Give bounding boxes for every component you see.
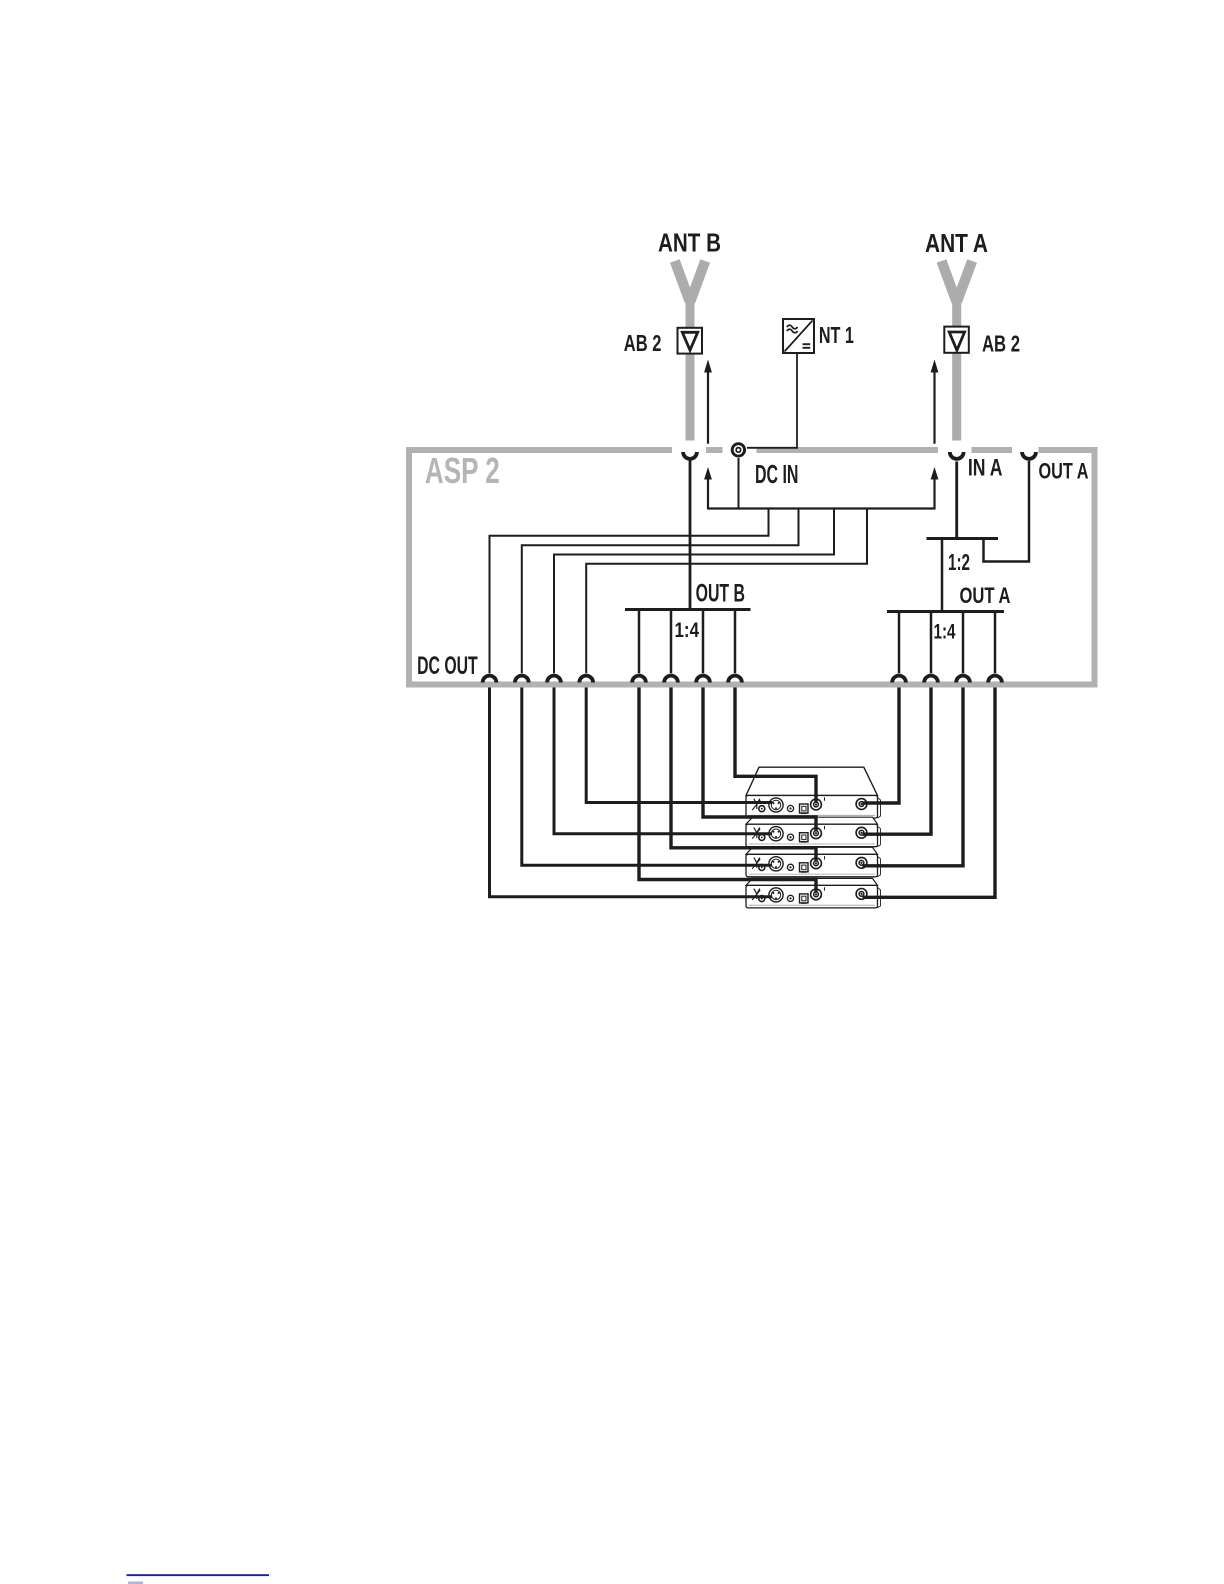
arrow up outside B: [704, 360, 712, 444]
receiver EM 4: [746, 885, 881, 908]
receiver EM 4 top face: [746, 878, 878, 885]
arrow up inside A: [931, 467, 939, 510]
power supply NT 1: [783, 319, 814, 353]
svg-text:OUT B: OUT B: [696, 579, 745, 607]
connector OUT B 3: [696, 676, 710, 683]
arrow up outside A: [931, 360, 939, 444]
wire OUT A 4 to receiver 4: [863, 688, 996, 898]
connector OUT B 2: [664, 676, 678, 683]
wire DC tap 1: [490, 509, 769, 674]
booster AB 2 (right): [944, 327, 969, 353]
wire IN A down: [955, 462, 958, 540]
wire DC tap 2: [522, 509, 799, 674]
arrow up inside B: [704, 467, 712, 510]
svg-text:DC OUT: DC OUT: [417, 652, 478, 680]
wire DC tap 3: [554, 509, 834, 674]
svg-text:1:2: 1:2: [948, 549, 970, 575]
connector OUT A 3: [956, 676, 970, 683]
receiver EM 2: [746, 824, 881, 847]
svg-text:ASP 2: ASP 2: [425, 451, 500, 491]
receiver EM 3 top face: [746, 847, 878, 854]
svg-text:AB 2: AB 2: [624, 330, 662, 356]
connector OUT A 4: [988, 676, 1002, 683]
connector IN B: [683, 452, 697, 459]
wire OUT A 3 to receiver 3: [863, 688, 964, 866]
connector DC OUT 4: [579, 676, 593, 683]
connector DC OUT 3: [547, 676, 561, 683]
connector DC OUT 2: [515, 676, 529, 683]
svg-text:AB 2: AB 2: [982, 331, 1020, 357]
svg-text:NT 1: NT 1: [819, 322, 854, 348]
wire NT 1 to DC IN: [747, 354, 797, 448]
footer text fragment: [128, 1582, 143, 1584]
connector IN A: [950, 452, 964, 459]
svg-text:OUT A: OUT A: [1039, 459, 1089, 484]
wire OUT B 4 to receiver 1: [735, 688, 816, 803]
wire OUT A 1 to receiver 1: [863, 688, 900, 804]
wire DC OUT 1 to receiver 4: [490, 688, 773, 897]
receiver EM 3: [746, 854, 881, 877]
receiver EM 1: [746, 796, 881, 819]
wire DC IN down: [738, 458, 740, 510]
receiver EM 1 top face: [746, 767, 878, 795]
wire IN B down: [689, 459, 692, 610]
svg-text:1:4: 1:4: [675, 619, 700, 642]
receiver EM 2 top face: [746, 817, 878, 824]
svg-text:ANT B: ANT B: [658, 228, 721, 258]
connector OUT A 2: [924, 676, 938, 683]
wire OUT B 1 to receiver 4: [639, 688, 816, 893]
connector OUT B 1: [632, 676, 646, 683]
wire OUT B 2 to receiver 3: [671, 688, 816, 862]
antenna ANT B: [675, 261, 705, 441]
ASP 2 enclosure border: [406, 447, 1098, 688]
footer rule: [127, 1574, 270, 1576]
connector DC IN: [732, 444, 744, 456]
splitter 1:4 B: [625, 610, 751, 674]
wire DC OUT 3 to receiver 2: [554, 688, 772, 834]
DC bus: [708, 507, 935, 509]
connector OUT A top: [1022, 452, 1036, 459]
wire DC OUT 2 to receiver 3: [522, 688, 772, 866]
connector DC OUT 1: [483, 676, 497, 683]
antenna ANT A: [942, 261, 973, 441]
splitter 1:2: [927, 539, 999, 612]
svg-text:ANT A: ANT A: [925, 228, 988, 258]
splitter 1:4 A: [887, 612, 1004, 674]
connector OUT B 4: [728, 676, 742, 683]
wire 1:2 to OUT A top: [984, 461, 1030, 562]
booster AB 2 (left): [678, 328, 703, 354]
svg-text:IN A: IN A: [968, 455, 1003, 482]
svg-text:1:4: 1:4: [934, 621, 956, 644]
svg-text:DC IN: DC IN: [755, 459, 798, 489]
wire DC tap 4: [586, 509, 867, 674]
wire OUT A 2 to receiver 2: [863, 688, 932, 835]
svg-text:OUT A: OUT A: [960, 583, 1011, 608]
wire OUT B 3 to receiver 2: [703, 688, 816, 832]
wire DC OUT 4 to receiver 1: [586, 688, 772, 803]
connector OUT A 1: [892, 676, 906, 683]
